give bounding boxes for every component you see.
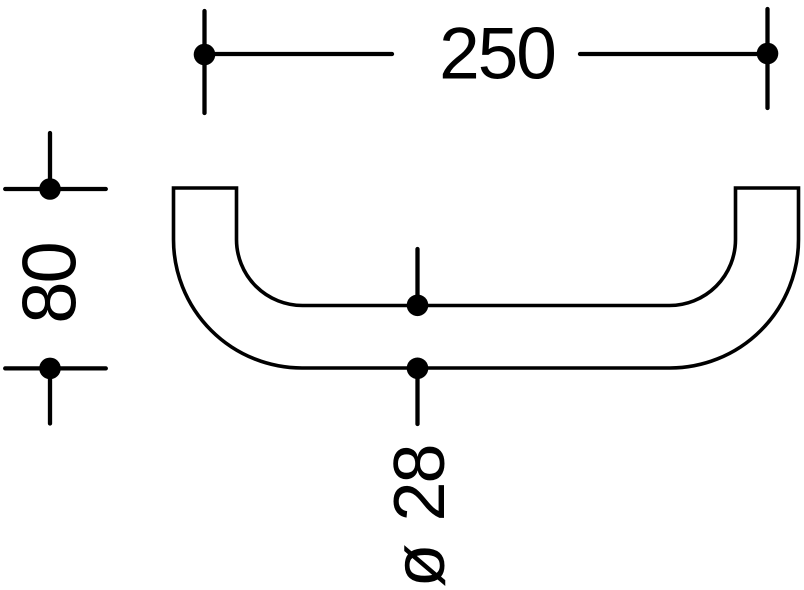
svg-text:ø 28: ø 28 [380, 445, 460, 587]
svg-text:250: 250 [439, 14, 555, 95]
svg-text:80: 80 [8, 243, 93, 324]
